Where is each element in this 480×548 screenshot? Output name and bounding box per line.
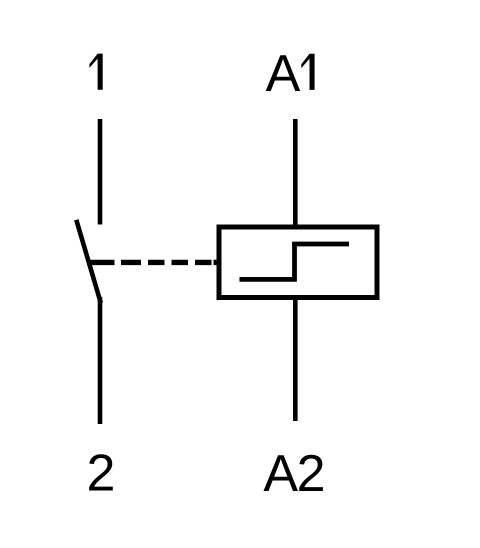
svg-text:A: A — [266, 45, 301, 103]
switch contact blade — [76, 220, 101, 303]
terminal label 1 — [89, 54, 102, 90]
latching step symbol — [240, 244, 350, 279]
wire terminal 1 — [98, 119, 103, 225]
wire A1 — [293, 119, 298, 226]
wire terminal 2 — [98, 297, 103, 424]
wire A2 — [293, 298, 298, 421]
svg-text:A2: A2 — [263, 445, 324, 503]
terminal label A1 (digit 1) — [301, 54, 314, 90]
svg-text:2: 2 — [87, 445, 116, 503]
relay coil box — [219, 227, 377, 298]
dashed mechanical link — [87, 260, 217, 265]
